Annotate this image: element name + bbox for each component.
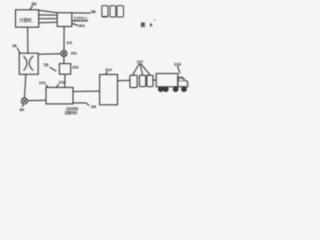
- wire metering down to mixer: [64, 74, 66, 87]
- hopper H3: [147, 75, 153, 86]
- svg-text:38: 38: [12, 43, 17, 48]
- svg-text:210: 210: [39, 81, 45, 85]
- truck trailer: [156, 74, 178, 87]
- truck wheel W2: [164, 87, 169, 92]
- box U1 computer 计算机: [16, 10, 39, 27]
- label 70: [43, 63, 56, 72]
- valve V2 circle-cross: [21, 98, 27, 104]
- svg-text:211: 211: [59, 81, 65, 85]
- svg-text:80: 80: [20, 107, 25, 112]
- figure caption 图6: [141, 22, 153, 29]
- wire bus line 2: [39, 14, 58, 16]
- label 214: [105, 68, 112, 75]
- wire CRT down to valve V2: [25, 74, 26, 98]
- svg-text:218: 218: [174, 61, 181, 66]
- wire bus line 3: [39, 18, 58, 20]
- box metering: [59, 64, 70, 75]
- svg-text:主控中心: 主控中心: [73, 16, 88, 21]
- bin B3: [117, 6, 124, 17]
- truck wheel W4: [182, 87, 187, 92]
- wire U2 down to valve V1: [63, 27, 65, 51]
- wire mixer to discharge box: [73, 90, 100, 92]
- svg-text:202: 202: [71, 51, 77, 55]
- svg-text:2B: 2B: [91, 9, 96, 14]
- bin B1: [102, 6, 108, 17]
- truck wheel W1: [159, 87, 164, 92]
- mixer caption two rows: [65, 106, 79, 115]
- hopper H1: [130, 75, 137, 87]
- label 80: [20, 104, 25, 112]
- box U2 interface: [57, 13, 72, 27]
- box discharge: [100, 75, 118, 105]
- hopper H2: [140, 75, 146, 86]
- svg-text:70: 70: [43, 63, 48, 68]
- svg-text:6: 6: [150, 23, 153, 28]
- svg-text:计算机: 计算机: [19, 17, 32, 24]
- valve V1 circle-cross: [61, 51, 67, 57]
- svg-text:图: 图: [141, 22, 146, 29]
- label 30: [30, 2, 37, 10]
- svg-text:217: 217: [137, 59, 144, 64]
- label 211: [57, 81, 65, 88]
- label 218: [174, 61, 181, 73]
- svg-text:装置系统: 装置系统: [65, 110, 78, 115]
- wire bins to truck: [153, 79, 156, 81]
- svg-text:86: 86: [67, 40, 73, 45]
- label 38: [12, 43, 20, 53]
- svg-text:203: 203: [72, 65, 78, 69]
- wire bus line 4: [39, 21, 58, 24]
- wire mixer corner stub: [73, 103, 89, 106]
- truck cab: [178, 77, 188, 87]
- node text 主控中心 underlined: [72, 16, 88, 21]
- box CRT display: [19, 53, 38, 74]
- label 210: [39, 81, 48, 87]
- wire discharge to bins: [118, 79, 130, 81]
- wire bus top (sloped): [39, 10, 58, 13]
- label 217 with three leaders: [133, 59, 150, 75]
- speck: [154, 19, 155, 20]
- svg-text:302: 302: [79, 24, 85, 28]
- wire to remote 215: [72, 12, 91, 14]
- label 302: [72, 23, 85, 28]
- truck wheel W3: [173, 87, 178, 92]
- svg-text:2M: 2M: [91, 105, 96, 109]
- wire V2 to mixer box: [28, 99, 47, 101]
- svg-text:214: 214: [105, 68, 112, 72]
- wire CRT to V1 with arrow: [38, 53, 60, 55]
- box mixer: [46, 87, 73, 104]
- bin B2: [110, 6, 116, 17]
- truck cab window: [179, 79, 184, 82]
- wire V1 to metering box: [63, 57, 65, 64]
- wire U1 down to CRT: [27, 27, 29, 53]
